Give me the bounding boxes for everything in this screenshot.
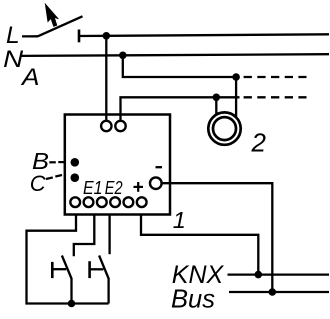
- svg-text:E2: E2: [105, 178, 123, 199]
- bottom terminal circle 2: [84, 197, 94, 207]
- wire L right segment: [79, 34, 329, 36]
- wire switched output to lamp: [121, 97, 240, 121]
- svg-text:E1: E1: [83, 178, 103, 199]
- svg-text:Bus: Bus: [171, 283, 215, 313]
- lamp E2 outer circle: [208, 112, 240, 144]
- pushbutton T1 bottom wire: [70, 278, 72, 304]
- junction dot N/lamp: [232, 73, 240, 81]
- svg-text:N: N: [3, 46, 23, 73]
- svg-text:C: C: [30, 171, 46, 196]
- pushbutton T1 plunger bar: [54, 268, 67, 270]
- switch S1 blade (mains switch): [38, 16, 83, 36]
- svg-text:1: 1: [173, 207, 186, 233]
- pushbutton T2 bottom wire: [107, 278, 109, 304]
- label minus: [156, 166, 163, 168]
- terminal circle top 2: [115, 121, 125, 131]
- svg-text:A: A: [20, 64, 40, 91]
- wire N: [22, 54, 330, 56]
- node B dot: [71, 158, 80, 167]
- device box U1: [65, 115, 170, 215]
- wire dashed continuation switched: [244, 96, 307, 98]
- switch S1 fixed contact tick: [78, 30, 81, 43]
- wire L left segment: [22, 35, 38, 37]
- label plus: [134, 186, 144, 188]
- actuation arrow (manual operation cursor): [45, 4, 58, 26]
- bottom terminal circle 1: [70, 197, 80, 207]
- wire terminal 1 to pushbutton common: [27, 215, 109, 304]
- node B dashed leader: [49, 161, 56, 163]
- junction dot bus line 1: [254, 271, 262, 279]
- svg-text:B: B: [32, 148, 49, 174]
- junction dot pushbutton common: [68, 300, 76, 308]
- pushbutton T2 blade: [99, 256, 109, 279]
- bottom terminal circle 5: [124, 197, 134, 207]
- wire lamp lead right: [235, 77, 237, 120]
- node C dashed leader: [46, 177, 53, 179]
- junction dot on N: [119, 52, 127, 60]
- minus terminal circle: [150, 177, 162, 189]
- wire dashed continuation N: [244, 76, 307, 78]
- bottom terminal circle 4: [110, 197, 120, 207]
- KNX bus line 1: [228, 273, 330, 275]
- wire terminal 2 to pushbutton T1: [74, 215, 95, 257]
- lamp E2 inner circle: [213, 117, 236, 140]
- svg-text:2: 2: [251, 127, 267, 157]
- bottom terminal circle 6: [137, 197, 147, 207]
- KNX bus line 2: [229, 291, 329, 293]
- wire terminal 3 to pushbutton T2: [108, 215, 110, 255]
- pushbutton T1 blade: [62, 256, 72, 279]
- pushbutton T1 plunger tick: [51, 262, 54, 278]
- wire lamp lead left: [215, 97, 217, 120]
- wire minus terminal to KNX bus line 2: [161, 183, 272, 292]
- wire L to terminal 1 (vertical): [105, 36, 107, 121]
- junction dot bus line 2: [269, 288, 277, 296]
- terminal circle top 1: [101, 121, 111, 131]
- wire terminal 6 to KNX bus line 1: [141, 215, 258, 275]
- wire N down to lamp feed: [123, 55, 236, 77]
- pushbutton T2 plunger tick: [88, 261, 91, 278]
- bottom terminal circle 3: [97, 197, 107, 207]
- junction dot switched/lamp: [213, 94, 221, 102]
- pushbutton T2 plunger bar: [91, 268, 104, 270]
- node C dot: [71, 173, 80, 182]
- junction dot on L: [103, 32, 111, 40]
